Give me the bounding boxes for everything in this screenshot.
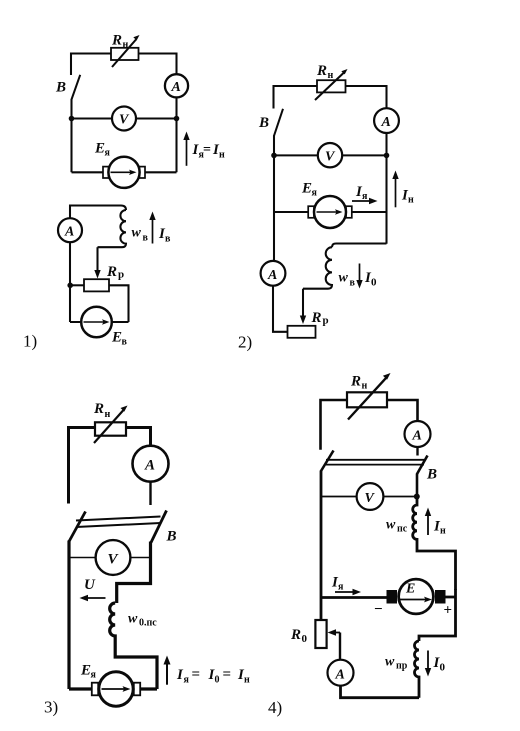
winding wV2 coil <box>303 247 332 289</box>
switch B4 right blade <box>417 456 428 475</box>
current arrow I04 <box>427 651 429 670</box>
svg-text:R: R <box>111 33 122 49</box>
node junction right V2 <box>384 153 390 159</box>
current arrow IY2 <box>352 200 370 202</box>
svg-text:3): 3) <box>44 698 58 717</box>
svg-text:0.пс: 0.пс <box>139 618 157 629</box>
svg-text:R: R <box>290 627 301 643</box>
switch B4 left blade <box>321 451 334 472</box>
switch B3 left blade <box>69 512 86 542</box>
voltmeter V1 <box>112 107 136 131</box>
machine EY1 inner arrow <box>111 171 132 173</box>
svg-text:A: A <box>171 80 181 95</box>
svg-text:E: E <box>94 141 105 157</box>
wire right rail to coil c2 <box>332 244 387 248</box>
winding wpc coil <box>413 497 456 591</box>
svg-text:0: 0 <box>302 633 308 645</box>
svg-text:A: A <box>335 668 345 683</box>
svg-text:2): 2) <box>238 333 252 352</box>
label RH2 <box>316 63 334 81</box>
machine EY2 inner arrow <box>317 211 338 213</box>
resistor RH4 body <box>347 392 387 407</box>
label w0pc <box>128 612 157 629</box>
svg-text:я: я <box>91 670 97 681</box>
svg-text:=: = <box>203 143 211 158</box>
label EY1 <box>94 141 111 159</box>
svg-text:U: U <box>84 577 96 593</box>
wire A3 to switch <box>149 482 151 505</box>
svg-text:R: R <box>350 374 361 390</box>
svg-text:−: − <box>374 602 383 618</box>
voltmeter V3 <box>96 540 131 575</box>
label EV1 <box>111 330 128 348</box>
svg-text:пс: пс <box>397 524 408 535</box>
svg-text:0: 0 <box>215 675 220 686</box>
machine EY3 right brush <box>134 683 140 696</box>
ammeter A4 <box>405 421 431 447</box>
svg-text:w: w <box>386 518 396 533</box>
wire V row c1 <box>72 117 177 119</box>
svg-text:E: E <box>405 582 415 597</box>
label wV1 <box>132 226 149 244</box>
source EV1 <box>81 307 112 338</box>
machine EY3 armature <box>99 672 133 706</box>
svg-text:B: B <box>166 529 177 545</box>
svg-text:w: w <box>385 655 395 670</box>
wire top-left c1 <box>71 54 111 76</box>
svg-text:в: в <box>143 233 149 244</box>
svg-text:E: E <box>111 330 122 346</box>
machine E4 inner arrow <box>400 599 426 601</box>
svg-text:R: R <box>311 310 322 326</box>
node junction c4 <box>414 494 420 500</box>
wire right pole down c3 <box>117 542 151 604</box>
label IH2 <box>401 188 414 206</box>
voltmeter V2 <box>318 143 342 167</box>
label RH1 <box>111 33 129 51</box>
wire left rail c2 <box>273 135 275 261</box>
svg-text:н: н <box>328 70 334 81</box>
wire right rail down c4 <box>419 589 456 641</box>
label RH3 <box>93 401 111 420</box>
label R04 <box>290 627 308 645</box>
voltmeter V4 <box>357 483 384 510</box>
label I02 <box>364 270 377 289</box>
wire V row c4 <box>321 496 417 498</box>
svg-text:A: A <box>412 429 422 444</box>
svg-text:E: E <box>301 181 312 197</box>
svg-text:R: R <box>316 63 327 79</box>
svg-text:н: н <box>362 381 368 392</box>
source EV1 inner arrow <box>84 321 105 323</box>
resistor RH3 body <box>95 422 126 435</box>
wire exciter bottom <box>70 321 129 323</box>
wire machine row c4 <box>321 596 456 599</box>
label IH4 <box>433 519 446 537</box>
winding w0pc coil <box>110 603 157 689</box>
svg-text:R: R <box>106 264 117 280</box>
label IY4 <box>331 575 344 593</box>
current arrow IY4 <box>335 591 354 593</box>
svg-text:A: A <box>267 268 277 283</box>
svg-text:в: в <box>122 337 128 348</box>
svg-text:я: я <box>338 582 344 593</box>
wire top-left c3 <box>69 428 96 504</box>
machine EY3 inner arrow <box>102 688 125 690</box>
svg-text:н: н <box>408 195 414 206</box>
svg-text:в: в <box>350 278 356 289</box>
svg-text:н: н <box>244 675 250 686</box>
machine E4 left brush (black) <box>387 590 398 604</box>
winding wpr coil <box>415 641 420 698</box>
resistor RH2 variable arrow <box>315 73 344 101</box>
wire top-left c4 <box>321 400 348 450</box>
svg-text:B: B <box>258 115 269 131</box>
resistor RH1 variable arrow <box>112 40 136 68</box>
label EY3 <box>80 663 97 681</box>
svg-text:=: = <box>223 667 232 683</box>
machine E4 right brush (black) <box>435 590 446 604</box>
machine EY1 armature <box>108 157 139 188</box>
resistor R04 wiper arrow <box>333 632 340 634</box>
wire top-right c3 <box>126 428 151 446</box>
svg-text:в: в <box>165 234 171 245</box>
wire right rail c2 <box>385 133 387 244</box>
svg-text:я: я <box>362 191 368 202</box>
current arrow IY3 <box>166 663 168 685</box>
current arrow I02 <box>359 264 361 282</box>
label wpc <box>386 518 408 535</box>
machine EY2 right brush <box>346 206 352 218</box>
svg-text:w: w <box>128 612 138 627</box>
wire coil to RP2 wiper <box>302 289 304 317</box>
wire top-right c1 <box>139 54 177 75</box>
wire V row c3 <box>69 557 150 559</box>
ammeter A1e <box>58 218 82 242</box>
machine EY2 left brush <box>308 206 314 218</box>
resistor RP2 body <box>288 326 316 338</box>
wire RP1 left to rail <box>70 284 84 286</box>
label EY2 <box>301 181 318 199</box>
wire right rail c1 <box>175 97 177 172</box>
wire RP1 right down <box>109 285 129 322</box>
wire wiper to A4b <box>339 633 341 660</box>
svg-text:я: я <box>312 188 318 199</box>
label IY3 = I03 = IH3 <box>176 667 250 686</box>
node junction left V1 <box>69 116 75 122</box>
svg-text:w: w <box>339 271 349 286</box>
wire left rail c4 <box>320 471 323 621</box>
current arrow IH2 <box>395 178 397 207</box>
machine EY3 left brush <box>92 683 98 696</box>
label I04 <box>433 655 446 674</box>
svg-text:p: p <box>118 269 124 281</box>
svg-text:A: A <box>381 115 391 130</box>
resistor RP1 body <box>84 279 109 291</box>
svg-text:1): 1) <box>23 332 37 351</box>
svg-text:я: я <box>105 148 111 159</box>
ammeter A2 <box>374 108 399 133</box>
ammeter A3 <box>133 446 169 482</box>
switch B2 blade <box>274 109 283 136</box>
label wV2 <box>339 271 356 289</box>
label IY2 <box>355 184 368 202</box>
wire left rail c3 <box>67 541 70 690</box>
svg-text:B: B <box>426 467 437 483</box>
label RP1 <box>106 264 124 281</box>
resistor RH4 variable arrow <box>348 378 386 420</box>
machine E4 armature <box>399 579 434 614</box>
current arrow IY1 <box>186 139 188 166</box>
wire bottom c1 <box>72 171 177 173</box>
ammeter A4b <box>328 660 354 686</box>
label wpr <box>385 655 408 672</box>
wire A2b to RP2 <box>273 286 288 332</box>
node junction left V2 <box>271 153 277 159</box>
switch B3 bar <box>76 517 161 528</box>
wire top-right c2 <box>346 86 387 108</box>
svg-text:н: н <box>123 40 129 51</box>
label IV1 <box>158 226 171 245</box>
svg-text:0: 0 <box>440 662 446 674</box>
resistor R04 body <box>315 620 326 648</box>
svg-text:=: = <box>192 667 201 683</box>
current arrow IV1 <box>152 219 154 244</box>
ammeter A2b <box>261 261 286 286</box>
label RH4 <box>350 374 368 392</box>
svg-text:+: + <box>444 603 453 619</box>
svg-text:4): 4) <box>268 698 282 717</box>
resistor RH3 variable arrow <box>94 410 124 443</box>
switch B3 right blade <box>151 511 167 543</box>
switch B4 bar <box>326 460 424 465</box>
wire top-left c2 <box>274 86 318 109</box>
svg-text:0: 0 <box>371 277 377 289</box>
machine EY1 right brush <box>139 167 145 178</box>
ammeter A1 <box>165 74 188 97</box>
switch B1 blade <box>72 75 81 100</box>
wire exciter top <box>70 206 126 219</box>
wire top-right c4 <box>387 400 418 421</box>
machine EY2 armature <box>314 196 346 228</box>
wire left rail c1 <box>70 99 72 172</box>
wire wiper feed RP1 <box>96 247 98 271</box>
wire bottom c3 <box>69 687 157 690</box>
machine EY1 left brush <box>103 167 109 178</box>
svg-text:н: н <box>440 526 446 537</box>
winding wV1 coil <box>98 210 127 247</box>
wire A4 to switch <box>416 447 418 456</box>
svg-text:н: н <box>105 409 111 420</box>
label RP2 <box>311 310 329 327</box>
svg-text:A: A <box>64 225 74 240</box>
wire exciter left rail <box>69 242 71 322</box>
svg-text:p: p <box>323 315 329 327</box>
svg-text:н: н <box>219 150 225 161</box>
node junction RP1 left <box>67 283 73 289</box>
svg-text:пр: пр <box>396 661 408 672</box>
svg-text:E: E <box>80 663 91 679</box>
voltage arrow U3 <box>87 597 106 599</box>
svg-text:w: w <box>132 226 142 241</box>
wire machine row c2 <box>274 211 387 213</box>
node junction right V1 <box>174 116 180 122</box>
wire right pole to node c4 <box>416 474 419 497</box>
resistor RH1 body <box>111 48 139 60</box>
svg-text:B: B <box>55 80 66 96</box>
svg-text:R: R <box>93 401 104 417</box>
current arrow IH4 <box>427 515 429 536</box>
wire bottom c4 <box>341 686 420 698</box>
wire V row c2 <box>274 154 387 156</box>
svg-text:я: я <box>184 675 190 686</box>
label IY1 = IH1 <box>192 142 226 161</box>
svg-text:A: A <box>144 458 155 474</box>
resistor RH2 body <box>317 80 346 92</box>
